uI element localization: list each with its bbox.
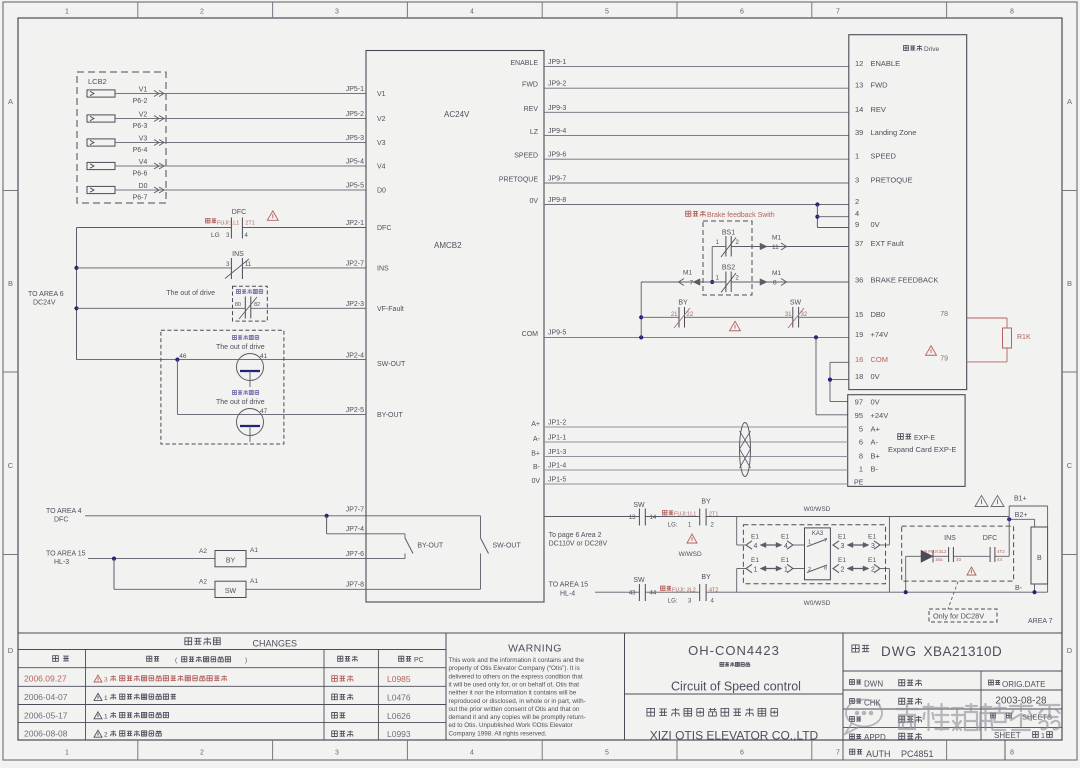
- svg-text:33: 33: [956, 557, 962, 562]
- svg-text:ORIG.DATE: ORIG.DATE: [1002, 680, 1045, 689]
- svg-text:SW: SW: [633, 502, 645, 509]
- svg-text:EXT Fault: EXT Fault: [871, 239, 905, 248]
- svg-text:5: 5: [605, 750, 609, 757]
- svg-text:79: 79: [940, 356, 948, 363]
- svg-text:VF-Fault: VF-Fault: [377, 306, 404, 313]
- svg-text:PC4851: PC4851: [901, 749, 934, 759]
- svg-text:JP9-3: JP9-3: [548, 105, 566, 112]
- svg-text:A1: A1: [250, 547, 258, 554]
- svg-text:2: 2: [200, 9, 204, 16]
- svg-text:SPEED: SPEED: [514, 153, 538, 160]
- svg-text:P6-7: P6-7: [133, 195, 148, 202]
- svg-text:JP7-4: JP7-4: [346, 526, 364, 533]
- svg-text:V1: V1: [377, 91, 386, 98]
- svg-text:DWN: DWN: [864, 680, 883, 689]
- svg-text:22: 22: [687, 312, 694, 318]
- svg-text:JP1-5: JP1-5: [548, 477, 566, 484]
- svg-text:L0993: L0993: [387, 729, 411, 739]
- svg-text:+24V: +24V: [871, 411, 889, 420]
- svg-text:A: A: [1067, 97, 1072, 106]
- svg-text:DC24V: DC24V: [33, 300, 56, 307]
- svg-text:5: 5: [859, 425, 863, 434]
- svg-text:8: 8: [1010, 750, 1014, 757]
- svg-text:V4: V4: [377, 164, 386, 171]
- svg-text:B1+: B1+: [1014, 496, 1027, 503]
- svg-text:L0626: L0626: [387, 711, 411, 721]
- svg-text:JP2-5: JP2-5: [346, 407, 364, 414]
- svg-text:TO AREA 15: TO AREA 15: [549, 582, 589, 589]
- svg-text:V3: V3: [377, 140, 386, 147]
- svg-text:WARNING: WARNING: [508, 643, 562, 655]
- svg-text:JP9-6: JP9-6: [548, 152, 566, 159]
- svg-text:To page 6 Area 2: To page 6 Area 2: [549, 532, 602, 539]
- svg-text:Company 1998. All rights rese: Company 1998. All rights reserved.: [449, 730, 547, 737]
- svg-text:JP7-7: JP7-7: [346, 507, 364, 514]
- svg-text:DFC: DFC: [983, 535, 997, 542]
- svg-text:11: 11: [772, 244, 779, 251]
- svg-text:COM: COM: [871, 355, 889, 364]
- svg-text:78: 78: [940, 311, 948, 318]
- svg-text:JP1-3: JP1-3: [548, 449, 566, 456]
- svg-text:A: A: [8, 97, 13, 106]
- svg-text:JP5-2: JP5-2: [346, 111, 364, 118]
- svg-text:FWD: FWD: [522, 82, 538, 89]
- svg-text:4: 4: [470, 9, 474, 16]
- svg-text:V2: V2: [377, 116, 386, 123]
- svg-text:15: 15: [855, 310, 863, 319]
- svg-text:TO AREA 15: TO AREA 15: [46, 551, 86, 558]
- svg-text:B-: B-: [1015, 585, 1023, 592]
- svg-text:14: 14: [855, 105, 863, 114]
- svg-text:0V: 0V: [871, 398, 880, 407]
- svg-text:P6-6: P6-6: [133, 171, 148, 178]
- svg-text:B: B: [1067, 279, 1072, 288]
- svg-text:44: 44: [997, 557, 1003, 562]
- svg-text:13: 13: [629, 515, 636, 521]
- svg-text:9: 9: [855, 220, 859, 229]
- svg-text:L0476: L0476: [387, 692, 411, 702]
- svg-text:HL-4: HL-4: [560, 591, 575, 598]
- svg-text:FUJI:1L1: FUJI:1L1: [217, 221, 239, 227]
- svg-text:ed to Otis. Unpublished W: ed to Otis. Unpublished Work ©Otis Eleva…: [449, 721, 573, 729]
- svg-text:18: 18: [855, 372, 863, 381]
- svg-text:D0: D0: [139, 183, 148, 190]
- svg-text:31: 31: [785, 312, 792, 318]
- svg-text:Brake feedback Swith: Brake feedback Swith: [707, 212, 775, 219]
- svg-text:E1: E1: [838, 534, 846, 541]
- svg-text:2006-04-07: 2006-04-07: [24, 692, 68, 702]
- svg-text:13: 13: [855, 81, 863, 90]
- svg-text:P6-3: P6-3: [133, 123, 148, 130]
- svg-text:V1: V1: [139, 87, 148, 94]
- svg-text:DFC: DFC: [377, 225, 391, 232]
- svg-text:37: 37: [855, 239, 863, 248]
- svg-text:P6-2: P6-2: [133, 98, 148, 105]
- svg-text:14: 14: [650, 515, 657, 521]
- svg-text:3: 3: [335, 9, 339, 16]
- svg-text:47: 47: [260, 408, 268, 415]
- svg-text:REV: REV: [871, 105, 886, 114]
- svg-text:AMCB2: AMCB2: [434, 241, 462, 250]
- svg-text:19: 19: [855, 330, 863, 339]
- svg-text:2006.09.27: 2006.09.27: [24, 674, 67, 684]
- svg-text:46: 46: [179, 353, 187, 360]
- svg-text:JP5-5: JP5-5: [346, 183, 364, 190]
- svg-text:5: 5: [605, 9, 609, 16]
- svg-text:BY-OUT: BY-OUT: [377, 412, 404, 419]
- svg-text:3: 3: [104, 677, 108, 684]
- svg-text:1: 1: [1041, 733, 1045, 740]
- svg-text:JP9-5: JP9-5: [548, 330, 566, 337]
- svg-text:E1: E1: [751, 534, 759, 541]
- svg-text:2006-05-17: 2006-05-17: [24, 710, 68, 720]
- svg-text:95: 95: [855, 411, 863, 420]
- svg-text:M1: M1: [772, 270, 781, 277]
- svg-text:PC: PC: [414, 657, 424, 664]
- svg-text:8: 8: [773, 280, 777, 287]
- svg-text:BY-OUT: BY-OUT: [417, 543, 444, 550]
- svg-text:B+: B+: [871, 452, 881, 461]
- svg-text:V4: V4: [139, 159, 148, 166]
- svg-text:JP2-7: JP2-7: [346, 261, 364, 268]
- svg-text:EXP-E: EXP-E: [914, 435, 935, 442]
- svg-text:8 FUJI:3L2: 8 FUJI:3L2: [924, 549, 947, 554]
- svg-text:4: 4: [754, 543, 758, 550]
- svg-text:4: 4: [470, 750, 474, 757]
- svg-text:PE: PE: [854, 480, 864, 487]
- svg-text:INS: INS: [232, 251, 244, 258]
- svg-text:3: 3: [855, 176, 859, 185]
- svg-text:KA3: KA3: [812, 531, 824, 537]
- svg-text:XBA21310D: XBA21310D: [924, 644, 1003, 659]
- svg-text:JP9-1: JP9-1: [548, 59, 566, 66]
- svg-text:LG:: LG:: [668, 598, 678, 604]
- svg-text:4T2: 4T2: [997, 549, 1005, 554]
- svg-text:): ): [245, 657, 247, 664]
- svg-text:D: D: [8, 646, 14, 655]
- svg-text:SW: SW: [225, 588, 237, 595]
- svg-text:B-: B-: [533, 464, 541, 471]
- svg-text:41: 41: [260, 353, 268, 360]
- svg-text:DFC: DFC: [54, 517, 68, 524]
- svg-text:+74V: +74V: [871, 330, 889, 339]
- svg-text:B+: B+: [531, 451, 540, 458]
- svg-text:4: 4: [855, 209, 859, 218]
- svg-text:82: 82: [254, 302, 260, 308]
- svg-text:Drive: Drive: [924, 46, 940, 53]
- svg-text:0V: 0V: [871, 220, 880, 229]
- svg-text:AUTH: AUTH: [866, 749, 891, 759]
- svg-text:BY: BY: [701, 499, 711, 506]
- svg-text:FWD: FWD: [871, 81, 889, 90]
- svg-text:A1: A1: [250, 578, 258, 585]
- svg-text:E1: E1: [838, 557, 846, 564]
- svg-text:BY: BY: [678, 300, 688, 307]
- svg-text:B-: B-: [871, 465, 879, 474]
- svg-text:JP7-8: JP7-8: [346, 582, 364, 589]
- svg-text:A2: A2: [199, 548, 207, 555]
- svg-text:PRETOQUE: PRETOQUE: [871, 176, 913, 185]
- svg-text:2: 2: [200, 750, 204, 757]
- svg-text:SW-OUT: SW-OUT: [493, 543, 522, 550]
- svg-text:7: 7: [690, 280, 694, 287]
- svg-text:COM: COM: [522, 331, 539, 338]
- svg-text:delivered to others on the exp: delivered to others on the express condi…: [449, 673, 583, 680]
- svg-text:80: 80: [235, 302, 241, 308]
- svg-text:Landing Zone: Landing Zone: [871, 128, 917, 137]
- svg-text:6: 6: [740, 9, 744, 16]
- svg-text:7: 7: [836, 9, 840, 16]
- svg-text:SW-OUT: SW-OUT: [377, 361, 406, 368]
- svg-text:neither it nor the information: neither it nor the information it contai…: [449, 690, 577, 697]
- svg-text:Only for DC28V: Only for DC28V: [933, 612, 984, 621]
- svg-text:PRETOQUE: PRETOQUE: [499, 177, 538, 184]
- svg-text:1: 1: [104, 695, 108, 702]
- svg-text:1: 1: [65, 9, 69, 16]
- svg-text:JP2-3: JP2-3: [346, 301, 364, 308]
- svg-text:SPEED: SPEED: [871, 152, 897, 161]
- svg-text:LG: LG: [211, 232, 220, 239]
- svg-text:BS2: BS2: [722, 265, 735, 272]
- svg-text:A+: A+: [531, 421, 540, 428]
- svg-text:V3: V3: [139, 136, 148, 143]
- svg-text:JP1-1: JP1-1: [548, 435, 566, 442]
- svg-text:1: 1: [859, 465, 863, 474]
- svg-text:LCB2: LCB2: [88, 77, 107, 86]
- svg-text:2T1: 2T1: [245, 221, 254, 227]
- svg-text:SW: SW: [790, 300, 802, 307]
- svg-text:E1: E1: [868, 534, 876, 541]
- svg-text:SW: SW: [633, 577, 645, 584]
- svg-text:AREA 7: AREA 7: [1028, 618, 1053, 625]
- svg-text:B: B: [8, 279, 13, 288]
- svg-text:property of Otis Elevator Comp: property of Otis Elevator Company (“Otis…: [449, 665, 580, 672]
- svg-text:8: 8: [1010, 9, 1014, 16]
- svg-text:The out of drive: The out of drive: [216, 344, 265, 351]
- svg-text:A-: A-: [871, 438, 879, 447]
- svg-text:FUJI:1L1: FUJI:1L1: [674, 512, 696, 518]
- svg-text:JP9-7: JP9-7: [548, 176, 566, 183]
- svg-text:1: 1: [104, 713, 108, 720]
- svg-text:CHANGES: CHANGES: [253, 639, 298, 649]
- svg-text:M1: M1: [772, 235, 781, 242]
- svg-text:OH-CON4423: OH-CON4423: [688, 643, 780, 658]
- svg-text:INS: INS: [377, 266, 389, 273]
- svg-text:JP5-4: JP5-4: [346, 159, 364, 166]
- svg-text:C: C: [1067, 461, 1073, 470]
- svg-text:DFC: DFC: [232, 209, 246, 216]
- svg-text:3: 3: [841, 543, 845, 550]
- svg-text:DB0: DB0: [871, 310, 886, 319]
- svg-text:APPD.: APPD.: [864, 733, 888, 742]
- svg-text:R1K: R1K: [1017, 334, 1031, 341]
- svg-text:JP1-4: JP1-4: [548, 463, 566, 470]
- svg-text:97: 97: [855, 398, 863, 407]
- svg-text:2: 2: [855, 197, 859, 206]
- svg-text:demand it and any copies will: demand it and any copies will be promptl…: [449, 714, 586, 721]
- svg-text:L0985: L0985: [387, 674, 411, 684]
- svg-text:0V: 0V: [529, 198, 538, 205]
- svg-text:REV: REV: [524, 106, 539, 113]
- svg-text:1: 1: [855, 152, 859, 161]
- svg-text:JP9-8: JP9-8: [548, 197, 566, 204]
- svg-text:LG:: LG:: [668, 523, 678, 529]
- svg-text:DC110V or DC28V: DC110V or DC28V: [549, 541, 608, 548]
- svg-text:2: 2: [841, 567, 845, 574]
- svg-text:21: 21: [671, 312, 678, 318]
- svg-text:out the prior written consent: out the prior written consent of Otis an…: [449, 706, 580, 713]
- svg-text:AC24V: AC24V: [444, 110, 470, 119]
- svg-text:W0/WSD: W0/WSD: [804, 506, 831, 513]
- svg-text:A-: A-: [533, 436, 541, 443]
- svg-text:D: D: [1067, 646, 1073, 655]
- svg-text:JP2-1: JP2-1: [346, 220, 364, 227]
- svg-text:1: 1: [65, 750, 69, 757]
- svg-text:JP9-2: JP9-2: [548, 81, 566, 88]
- svg-text:JP9-4: JP9-4: [548, 128, 566, 135]
- svg-text:it will be used only for, or o: it will be used only for, or on behalf o…: [449, 681, 580, 688]
- svg-text:XIZI OTIS ELEVATOR CO.,LTD: XIZI OTIS ELEVATOR CO.,LTD: [650, 729, 819, 743]
- svg-text:1: 1: [754, 567, 758, 574]
- svg-text:V2: V2: [139, 112, 148, 119]
- svg-text:43: 43: [629, 591, 636, 597]
- svg-text:7: 7: [836, 750, 840, 757]
- svg-text:JP5-3: JP5-3: [346, 135, 364, 142]
- svg-text:Circuit of Speed control: Circuit of Speed control: [671, 680, 801, 694]
- svg-text:8: 8: [859, 452, 863, 461]
- svg-text:JP5-1: JP5-1: [346, 86, 364, 93]
- svg-text:BY: BY: [701, 574, 711, 581]
- svg-text:TO AREA 4: TO AREA 4: [46, 508, 82, 515]
- svg-text:A2: A2: [199, 579, 207, 586]
- svg-text:36: 36: [855, 276, 863, 285]
- svg-text:HL-3: HL-3: [54, 559, 69, 566]
- svg-text:16a: 16a: [935, 557, 943, 562]
- svg-text:2T1: 2T1: [709, 512, 718, 518]
- svg-text:JP1-2: JP1-2: [548, 420, 566, 427]
- svg-text:6: 6: [859, 438, 863, 447]
- svg-text:0V: 0V: [531, 478, 540, 485]
- svg-text:32: 32: [801, 312, 808, 318]
- svg-text:Expand Card EXP-E: Expand Card EXP-E: [888, 445, 956, 454]
- svg-text:JP7-6: JP7-6: [346, 551, 364, 558]
- svg-text:0V: 0V: [871, 372, 880, 381]
- svg-text:BRAKE FEEDBACK: BRAKE FEEDBACK: [871, 276, 939, 285]
- svg-text:INS: INS: [944, 535, 956, 542]
- svg-text:11: 11: [245, 262, 252, 268]
- svg-text:W/WSD: W/WSD: [679, 551, 702, 558]
- svg-text:E1: E1: [868, 557, 876, 564]
- svg-text:The out of drive: The out of drive: [166, 290, 215, 297]
- svg-text:E1: E1: [781, 557, 789, 564]
- svg-text:The out of drive: The out of drive: [216, 399, 265, 406]
- svg-text:M1: M1: [683, 270, 692, 277]
- svg-text:E1: E1: [751, 557, 759, 564]
- svg-text:D0: D0: [377, 188, 386, 195]
- svg-text:B2+: B2+: [1015, 512, 1028, 519]
- svg-text:39: 39: [855, 128, 863, 137]
- svg-text:DWG: DWG: [881, 644, 917, 659]
- svg-text:ENABLE: ENABLE: [510, 60, 538, 67]
- svg-text:A+: A+: [871, 425, 881, 434]
- svg-text:44: 44: [650, 591, 657, 597]
- svg-text:P6-4: P6-4: [133, 147, 148, 154]
- svg-text:JP2-4: JP2-4: [346, 353, 364, 360]
- svg-text:BS1: BS1: [722, 230, 735, 237]
- svg-text:12: 12: [855, 59, 863, 68]
- svg-text:16: 16: [855, 355, 863, 364]
- svg-text:W0/WSD: W0/WSD: [804, 600, 831, 607]
- svg-text:1: 1: [808, 540, 811, 546]
- svg-text:ENABLE: ENABLE: [871, 59, 901, 68]
- svg-text:reproduced or disclosed, in wh: reproduced or disclosed, in whole or in …: [449, 698, 586, 705]
- svg-text:TO AREA 6: TO AREA 6: [28, 291, 64, 298]
- svg-text:E1: E1: [781, 534, 789, 541]
- svg-text:BY: BY: [226, 558, 236, 565]
- svg-text:SHEET: SHEET: [994, 731, 1021, 740]
- svg-text:4T2: 4T2: [709, 587, 718, 593]
- svg-text:LZ: LZ: [530, 129, 539, 136]
- svg-text:B: B: [1037, 555, 1042, 562]
- svg-text:2006-08-08: 2006-08-08: [24, 729, 68, 739]
- svg-text:This work and the information: This work and the information it contain…: [449, 657, 585, 664]
- svg-text:3: 3: [335, 750, 339, 757]
- svg-text:FUJI: 3L2: FUJI: 3L2: [672, 587, 696, 593]
- svg-text:2: 2: [104, 732, 108, 739]
- svg-text:6: 6: [740, 750, 744, 757]
- svg-text:C: C: [8, 461, 14, 470]
